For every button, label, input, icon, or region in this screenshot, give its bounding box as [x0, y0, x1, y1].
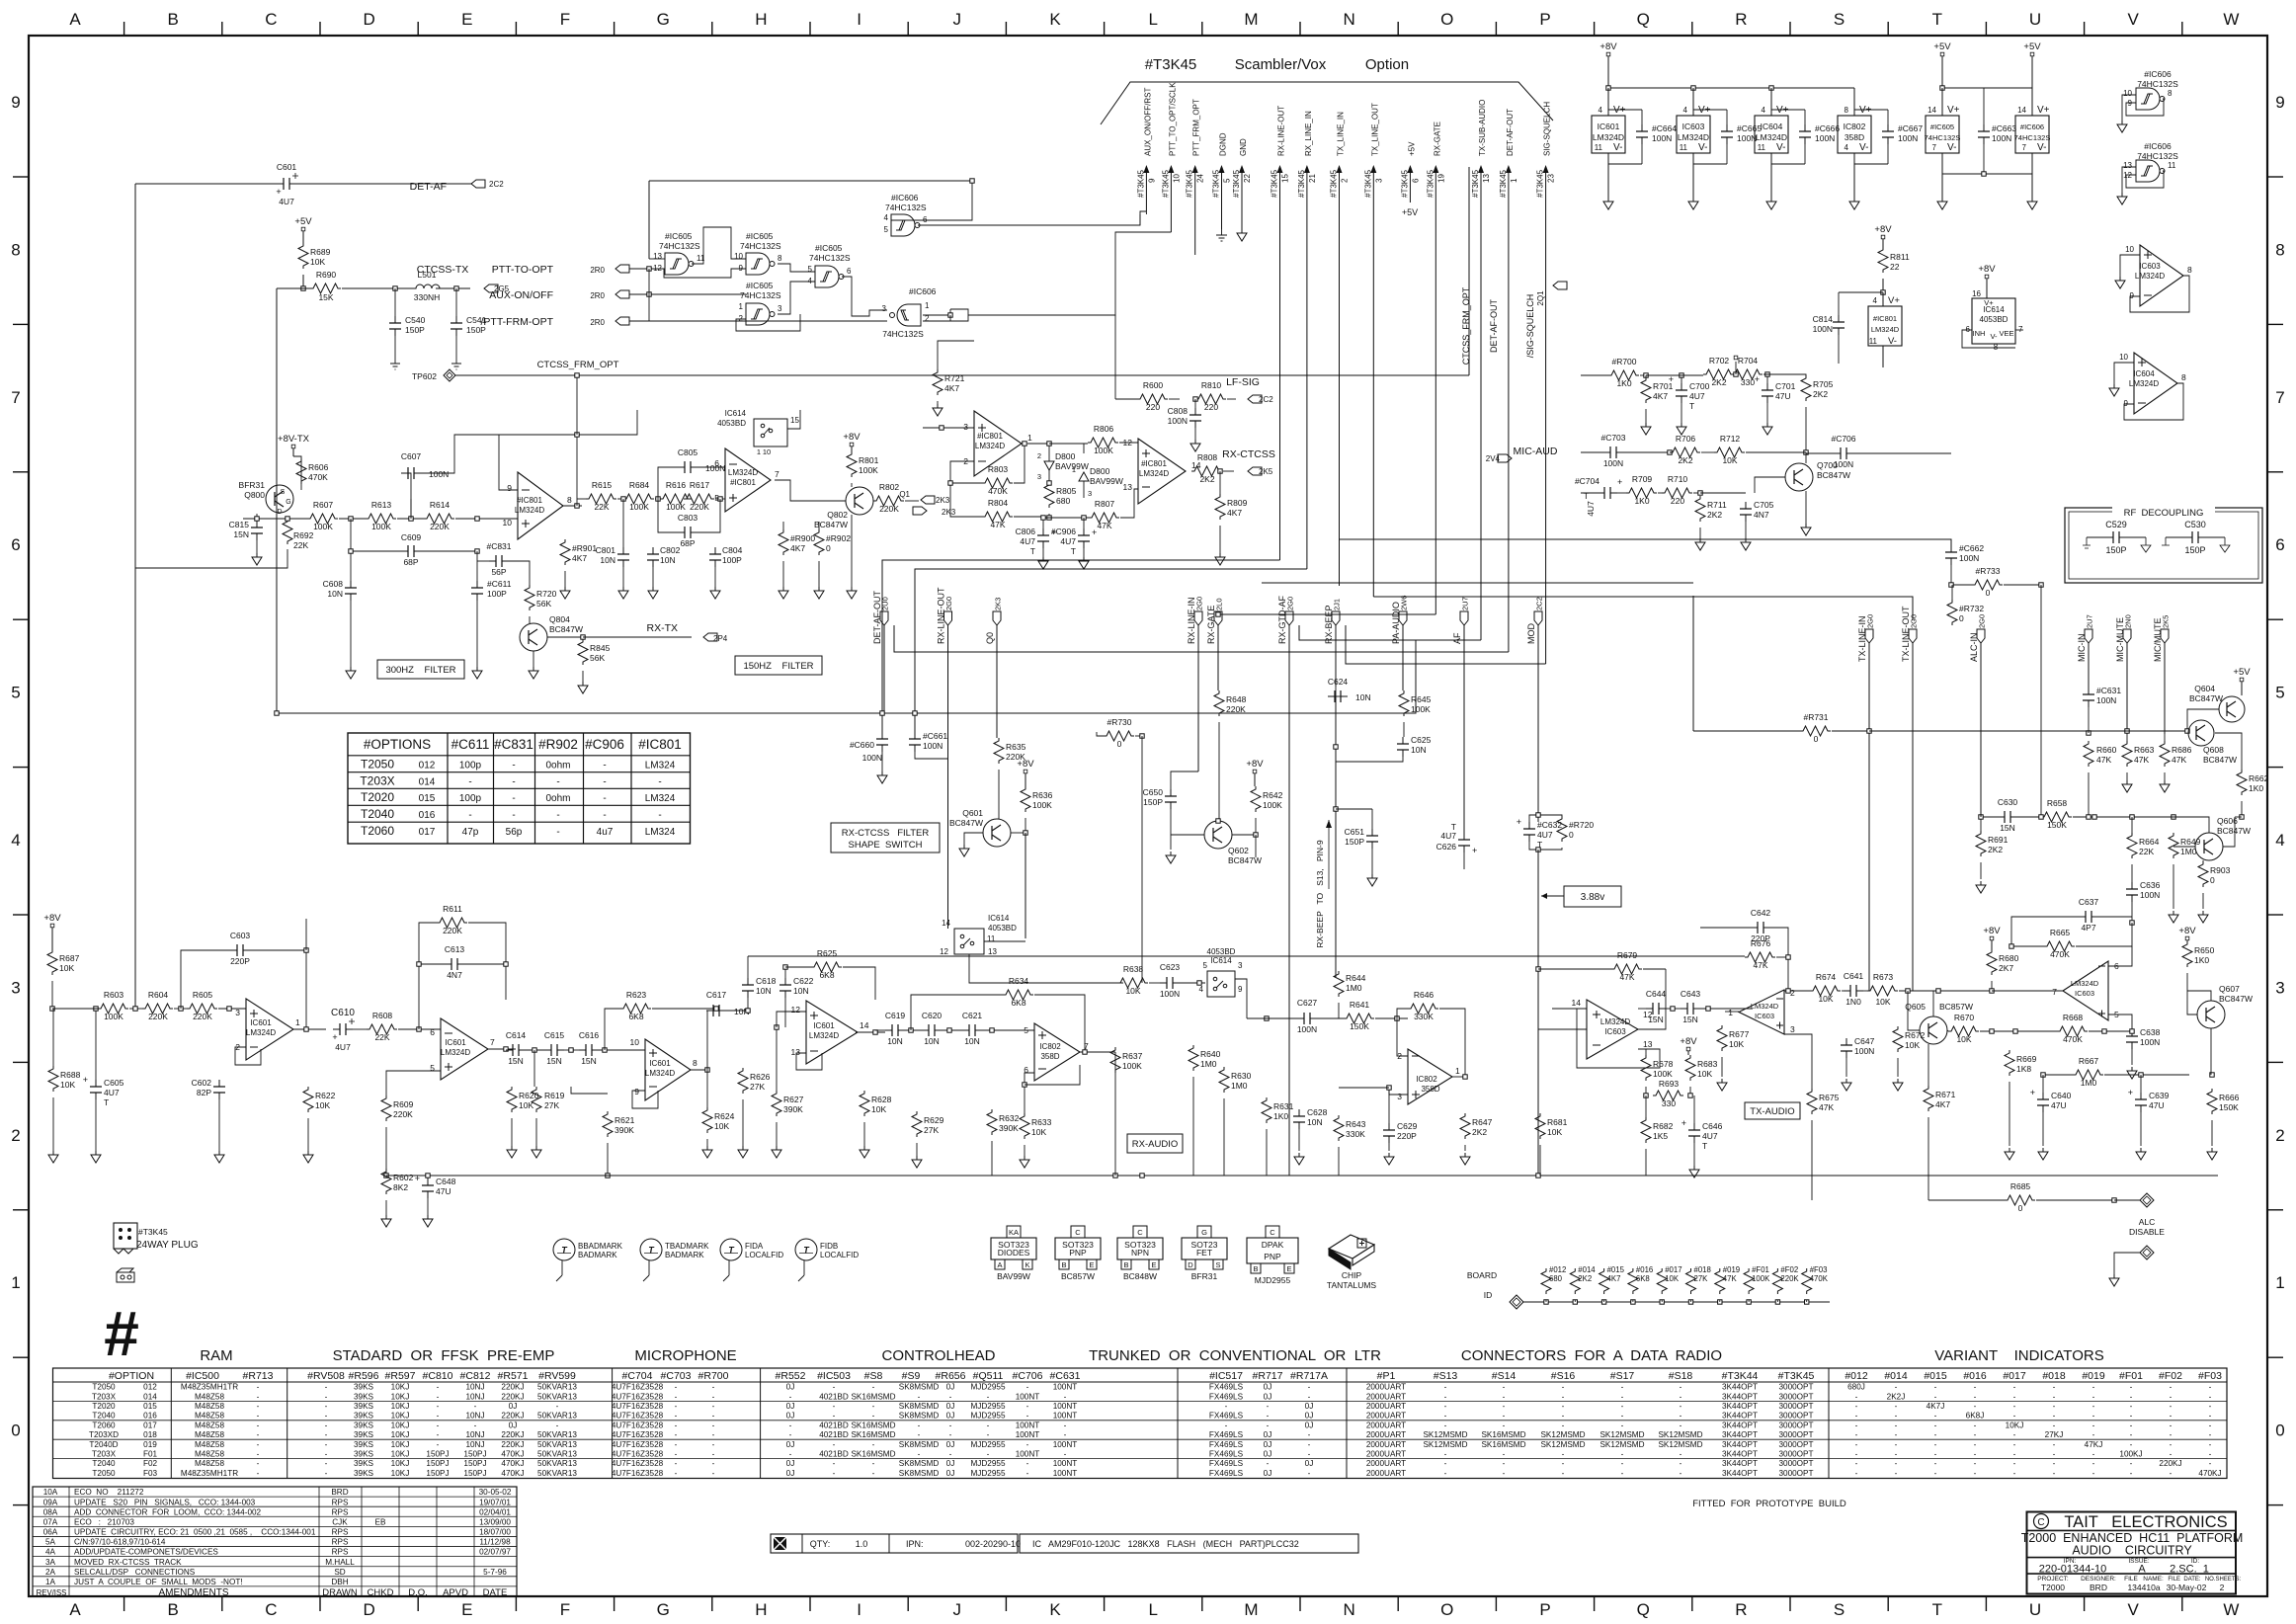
svg-text:C: C	[1270, 1228, 1275, 1237]
svg-text:4U7: 4U7	[1020, 536, 1035, 546]
svg-text:#OPTIONS: #OPTIONS	[364, 737, 431, 752]
svg-text:R689: R689	[310, 247, 331, 257]
svg-text:10K: 10K	[1905, 1040, 1920, 1050]
svg-text:C618: C618	[756, 976, 777, 986]
wire MOD lower drop	[1537, 969, 1539, 1176]
svg-text:-: -	[468, 810, 471, 821]
svg-text:3: 3	[11, 978, 20, 997]
T3K45 DGND ground	[1216, 229, 1227, 241]
svg-text:4053BD: 4053BD	[1980, 315, 2009, 324]
svg-text:4U7F16Z3528: 4U7F16Z3528	[612, 1469, 664, 1478]
resistor R669 1K8	[2005, 1031, 2037, 1160]
svg-text:7: 7	[2022, 143, 2027, 152]
svg-text:-: -	[1621, 1450, 1624, 1459]
svg-text:VEE: VEE	[1999, 329, 2013, 338]
analog switch IC614 4053BD power	[1962, 289, 2023, 352]
svg-text:R682: R682	[1653, 1121, 1674, 1131]
svg-text:-: -	[872, 1469, 875, 1478]
svg-text:R636: R636	[1032, 790, 1053, 800]
capacitor C625 10N	[1336, 735, 1432, 762]
svg-text:2U7: 2U7	[2086, 614, 2094, 628]
svg-text:LM324: LM324	[645, 827, 676, 838]
svg-text:A: A	[2138, 1564, 2146, 1576]
svg-text:09A: 09A	[43, 1498, 58, 1506]
T3K45 GND arrow	[1237, 229, 1247, 241]
svg-text:4U7F16Z3528: 4U7F16Z3528	[612, 1440, 664, 1449]
svg-text:220-01344-10: 220-01344-10	[2039, 1564, 2107, 1576]
svg-text:-: -	[1934, 1469, 1937, 1478]
resistor R644 1M0	[1334, 971, 1366, 1018]
svg-text:7: 7	[2052, 987, 2057, 997]
svg-text:R629: R629	[924, 1115, 944, 1125]
svg-text:-: -	[2013, 1450, 2016, 1459]
legend BBADMARK badmark symbol	[553, 1239, 623, 1281]
svg-text:#T3K45: #T3K45	[1136, 169, 1145, 198]
svg-text:#R733: #R733	[1975, 566, 2000, 576]
resistor R617 220K	[684, 480, 714, 512]
svg-text:M48Z58: M48Z58	[195, 1440, 224, 1449]
svg-text:#R700: #R700	[698, 1370, 729, 1382]
svg-text:LM324D: LM324D	[728, 468, 758, 477]
resistor R606 470K	[296, 458, 329, 484]
wire r615 row	[577, 497, 725, 501]
svg-text:REV/ISS: REV/ISS	[37, 1588, 67, 1597]
svg-text:100p: 100p	[459, 760, 482, 771]
svg-text:4: 4	[1683, 106, 1688, 115]
svg-text:4A: 4A	[45, 1548, 56, 1557]
svg-text:4K7: 4K7	[572, 553, 587, 563]
svg-text:50KVAR13: 50KVAR13	[537, 1469, 577, 1478]
svg-text:100N: 100N	[1168, 416, 1188, 426]
svg-text:T203X: T203X	[92, 1392, 117, 1401]
svg-text:8: 8	[567, 495, 572, 505]
svg-text:#C661: #C661	[923, 731, 947, 741]
svg-text:2000UART: 2000UART	[1366, 1469, 1406, 1478]
resistor R664 22K	[2127, 817, 2160, 882]
svg-text:MJD2955: MJD2955	[970, 1402, 1005, 1411]
svg-text:5: 5	[1223, 178, 1232, 183]
svg-text:4U7: 4U7	[1440, 831, 1456, 841]
svg-text:4053BD: 4053BD	[988, 924, 1017, 933]
svg-text:4K7: 4K7	[790, 543, 805, 553]
svg-text:9: 9	[634, 1087, 639, 1096]
svg-text:4K7: 4K7	[1607, 1274, 1621, 1283]
svg-text:-: -	[603, 793, 606, 804]
svg-text:3K44OPT: 3K44OPT	[1722, 1392, 1758, 1401]
svg-text:SK12MSMD: SK12MSMD	[1540, 1440, 1585, 1449]
svg-text:-: -	[2013, 1459, 2016, 1468]
wire d800 node	[1027, 442, 1088, 453]
capacitor C803 68P	[658, 499, 720, 548]
svg-text:-: -	[257, 1412, 260, 1421]
svg-text:4U7F16Z3528: 4U7F16Z3528	[612, 1383, 664, 1392]
op-amp IC601 second	[386, 1018, 516, 1096]
svg-text:+5V: +5V	[2023, 41, 2041, 52]
svg-text:MIC-AUD: MIC-AUD	[1514, 446, 1558, 457]
resistor R600 220	[1115, 380, 1180, 412]
svg-text:ECO : 210703: ECO : 210703	[74, 1517, 134, 1526]
svg-text:1K0: 1K0	[2194, 955, 2209, 965]
svg-text:IC604: IC604	[2133, 369, 2155, 378]
svg-text:FX469LS: FX469LS	[1209, 1440, 1244, 1449]
svg-text:R702: R702	[1709, 356, 1730, 365]
svg-text:100N: 100N	[1992, 133, 2011, 143]
svg-text:I: I	[857, 10, 861, 29]
svg-text:-: -	[257, 1421, 260, 1429]
T3K45 pin 3 TX_LINE_OUT	[1363, 103, 1383, 597]
svg-text:MOD: MOD	[1526, 623, 1536, 644]
svg-text:LM324D: LM324D	[1751, 1002, 1779, 1011]
svg-text:220K: 220K	[690, 502, 709, 512]
svg-text:8: 8	[2168, 89, 2173, 98]
power +5V R689	[294, 216, 312, 245]
svg-text:13: 13	[653, 252, 662, 261]
svg-text:8: 8	[693, 1058, 697, 1068]
svg-text:#IC606: #IC606	[2144, 69, 2172, 79]
wire ic802 out down	[1114, 1052, 1116, 1176]
net RX-TX connector 2P4	[583, 622, 728, 643]
resistor R704 330	[1732, 356, 1763, 387]
svg-text:D: D	[363, 10, 374, 29]
svg-text:R675: R675	[1819, 1093, 1840, 1102]
legend chip tantalum symbol	[1327, 1235, 1377, 1290]
svg-text:0J: 0J	[1305, 1421, 1314, 1429]
svg-text:-: -	[437, 1440, 440, 1449]
svg-text:-: -	[872, 1440, 875, 1449]
svg-text:100KJ: 100KJ	[2119, 1450, 2142, 1459]
svg-text:#015: #015	[1924, 1370, 1947, 1382]
svg-text:-: -	[1026, 1469, 1029, 1478]
svg-text:-: -	[2092, 1412, 2095, 1421]
svg-text:T: T	[1702, 1141, 1707, 1151]
op-amp IC601 third	[630, 1037, 710, 1108]
svg-text:-: -	[1562, 1392, 1565, 1401]
svg-text:1A: 1A	[45, 1578, 56, 1586]
svg-text:10: 10	[503, 518, 513, 528]
svg-text:06A: 06A	[43, 1528, 58, 1537]
svg-text:CONNECTORS FOR A DATA RADI: CONNECTORS FOR A DATA RADIO	[1461, 1347, 1722, 1364]
svg-text:ADD CONNECTOR FOR LOOM, CC: ADD CONNECTOR FOR LOOM, CCO: 1344-002	[74, 1507, 262, 1516]
resistor R658 150K	[2041, 798, 2170, 830]
svg-text:50KVAR13: 50KVAR13	[537, 1440, 577, 1449]
svg-text:100N: 100N	[1297, 1024, 1317, 1034]
svg-text:3.88v: 3.88v	[1581, 892, 1604, 903]
svg-text:CHIP: CHIP	[1342, 1270, 1362, 1280]
wire rx-line-out down	[947, 722, 949, 929]
capacitor C607 100N	[401, 451, 449, 519]
svg-text:R721: R721	[944, 373, 965, 383]
svg-text:#C666: #C666	[1815, 123, 1840, 133]
svg-text:#C812: #C812	[460, 1370, 491, 1382]
resistor R811 22	[1878, 247, 1910, 294]
svg-text:0J: 0J	[1264, 1440, 1272, 1449]
svg-text:1K0: 1K0	[1273, 1111, 1288, 1121]
150HZ FILTER box	[735, 656, 822, 675]
svg-text:#012: #012	[1845, 1370, 1868, 1382]
svg-text:-: -	[1680, 1402, 1682, 1411]
svg-text:R692: R692	[293, 530, 314, 540]
capacitor C616 15N	[579, 1030, 645, 1066]
svg-text:C805: C805	[678, 447, 698, 457]
svg-text:V-: V-	[1613, 142, 1622, 153]
svg-text:#IC517: #IC517	[1209, 1370, 1243, 1382]
resistor R845 56K	[547, 635, 611, 693]
svg-text:#S16: #S16	[1551, 1370, 1576, 1382]
svg-text:8K2: 8K2	[393, 1182, 408, 1192]
svg-text:-: -	[325, 1383, 328, 1392]
svg-text:C651: C651	[1345, 827, 1365, 837]
capacitor #C666	[1771, 110, 1840, 164]
second diamond connector	[2109, 1246, 2154, 1286]
svg-text:MJD2955: MJD2955	[970, 1440, 1005, 1449]
svg-text:10N: 10N	[660, 555, 676, 565]
svg-text:R803: R803	[988, 464, 1009, 474]
svg-text:R720: R720	[536, 589, 557, 599]
svg-text:39KS: 39KS	[354, 1421, 374, 1429]
connector 2R0 PTTFRM	[590, 317, 887, 327]
gate #IC605 A	[653, 231, 705, 275]
svg-text:-: -	[1680, 1450, 1682, 1459]
resistor R614 220K	[424, 500, 454, 531]
svg-text:R623: R623	[626, 990, 647, 1000]
svg-text:4U7F16Z3528: 4U7F16Z3528	[612, 1412, 664, 1421]
svg-text:R609: R609	[393, 1099, 414, 1109]
resistor R675 47K	[1784, 1034, 1840, 1200]
svg-text:-: -	[2013, 1412, 2016, 1421]
svg-text:UPDATE S20 PIN SIGNALS,: UPDATE S20 PIN SIGNALS, CCO: 1344-003	[74, 1498, 256, 1506]
svg-text:74HC132S: 74HC132S	[740, 290, 781, 300]
svg-text:V+: V+	[1984, 298, 1994, 307]
svg-text:C621: C621	[962, 1011, 983, 1020]
svg-text:-: -	[2053, 1459, 2056, 1468]
svg-text:AUDIO CIRCUITRY: AUDIO CIRCUITRY	[2072, 1544, 2192, 1558]
svg-text:R631: R631	[1273, 1101, 1294, 1111]
mid connector 2W6 PA-AUDIO	[1391, 596, 1409, 690]
svg-text:-: -	[658, 810, 661, 821]
svg-text:-: -	[918, 1450, 921, 1459]
op-amp IC601 fourth	[777, 1001, 885, 1070]
mid connector 2G0 RX-LINE-IN	[1187, 597, 1204, 771]
svg-text:7: 7	[11, 388, 20, 407]
svg-text:-: -	[512, 760, 515, 771]
svg-text:C610: C610	[331, 1008, 355, 1018]
svg-text:15N: 15N	[508, 1056, 524, 1066]
svg-text:-: -	[2170, 1440, 2173, 1449]
svg-text:-: -	[2092, 1392, 2095, 1401]
svg-text:#S8: #S8	[864, 1370, 883, 1382]
svg-text:0J: 0J	[946, 1440, 955, 1449]
svg-text:ALC: ALC	[2139, 1217, 2156, 1227]
svg-text:FX469LS: FX469LS	[1209, 1412, 1244, 1421]
svg-text:74HC132S: 74HC132S	[809, 253, 851, 263]
transistor Q601 BC847W	[949, 808, 1027, 856]
resistor R678 100K	[1641, 1049, 1674, 1097]
svg-text:2K7: 2K7	[1999, 963, 2013, 973]
svg-text:15K: 15K	[318, 292, 333, 302]
T3K45 option boundary line	[1101, 82, 1553, 124]
svg-text:39KS: 39KS	[354, 1459, 374, 1468]
legend TBADMARK badmark symbol	[640, 1239, 709, 1281]
svg-text:-: -	[1680, 1421, 1682, 1429]
svg-text:3: 3	[1374, 178, 1383, 183]
capacitor C603 220P	[181, 931, 308, 1029]
svg-text:10K: 10K	[60, 1080, 75, 1090]
op-amp IC802 power block	[1838, 88, 1872, 209]
capacitor C619 10N	[875, 1011, 922, 1046]
svg-text:A: A	[69, 10, 81, 29]
svg-text:RPS: RPS	[332, 1548, 349, 1557]
svg-text:C608: C608	[323, 579, 344, 589]
svg-text:4021BD: 4021BD	[819, 1421, 849, 1429]
svg-text:#017: #017	[2003, 1370, 2026, 1382]
svg-text:-: -	[1444, 1459, 1447, 1468]
svg-text:6: 6	[11, 535, 20, 554]
svg-text:#IC801: #IC801	[517, 496, 542, 505]
svg-text:R641: R641	[1350, 1000, 1370, 1010]
right connector 2U7 MIC-IN	[2077, 614, 2094, 662]
svg-text:6: 6	[1411, 178, 1420, 183]
svg-text:220KJ: 220KJ	[501, 1440, 524, 1449]
svg-text:27K: 27K	[750, 1082, 765, 1092]
svg-text:M48Z58: M48Z58	[195, 1450, 224, 1459]
capacitor #C632 4U7 tantalum	[1517, 815, 1563, 850]
svg-text:DET-AF-OUT: DET-AF-OUT	[872, 591, 882, 644]
wire lf-sig feed	[1114, 315, 1116, 399]
svg-text:#R713: #R713	[243, 1370, 274, 1382]
svg-text:3000OPT: 3000OPT	[1778, 1440, 1813, 1449]
svg-text:V-: V-	[2037, 142, 2046, 153]
svg-text:4: 4	[884, 213, 889, 222]
svg-text:47K: 47K	[1097, 521, 1111, 530]
svg-text:39KS: 39KS	[354, 1383, 374, 1392]
capacitor C610 4U7	[331, 1008, 355, 1052]
svg-text:T2040: T2040	[92, 1459, 116, 1468]
svg-text:220: 220	[1671, 496, 1684, 506]
svg-text:#IC605: #IC605	[665, 231, 693, 241]
capacitor C601 4U7	[276, 162, 298, 206]
svg-text:R809: R809	[1227, 498, 1248, 508]
legend SOT323 pnp package	[1055, 1226, 1101, 1281]
legend DPAK pnp package	[1247, 1226, 1298, 1285]
op-amp #IC841 LM324D fourth	[1123, 438, 1201, 504]
board id resistor #014 2K2	[1570, 1265, 1596, 1304]
svg-text:220K: 220K	[1226, 704, 1246, 714]
capacitor C623 100N	[1160, 962, 1205, 999]
svg-text:2000UART: 2000UART	[1366, 1412, 1406, 1421]
svg-text:IC601: IC601	[1598, 122, 1620, 131]
svg-text:-: -	[603, 810, 606, 821]
svg-text:-: -	[1064, 1392, 1067, 1401]
svg-text:A: A	[997, 1260, 1002, 1269]
board id resistor #F03 470K	[1802, 1265, 1829, 1304]
svg-text:IC614: IC614	[988, 914, 1010, 923]
svg-text:3K44OPT: 3K44OPT	[1722, 1440, 1758, 1449]
svg-text:4021BD: 4021BD	[819, 1430, 849, 1439]
net LF-SIG connector 2C2	[1226, 376, 1273, 404]
svg-text:#T3K44: #T3K44	[1722, 1370, 1759, 1382]
svg-text:TP602: TP602	[412, 371, 437, 381]
svg-text:0: 0	[2275, 1421, 2284, 1440]
svg-text:C603: C603	[230, 931, 251, 940]
svg-text:MJD2955: MJD2955	[970, 1412, 1005, 1421]
svg-text:3000OPT: 3000OPT	[1778, 1383, 1813, 1392]
svg-text:FITTED FOR PROTOTYPE BUILD: FITTED FOR PROTOTYPE BUILD	[1692, 1499, 1846, 1509]
svg-text:+5V: +5V	[1407, 141, 1416, 156]
svg-text:Q804: Q804	[549, 614, 570, 624]
svg-text:39KS: 39KS	[354, 1469, 374, 1478]
svg-text:R807: R807	[1095, 499, 1115, 509]
resistor R671 4K7	[1924, 1044, 1956, 1200]
mid connector 2K3 Q0	[985, 598, 1003, 738]
svg-text:4U7: 4U7	[279, 197, 294, 206]
svg-text:100K: 100K	[104, 1012, 123, 1021]
svg-text:-: -	[2170, 1402, 2173, 1411]
svg-text:#R571: #R571	[498, 1370, 529, 1382]
svg-text:-: -	[1308, 1430, 1311, 1439]
svg-text:R806: R806	[1094, 424, 1114, 434]
svg-text:BC848W: BC848W	[1123, 1271, 1157, 1281]
svg-text:+8V: +8V	[1983, 926, 2001, 936]
svg-text:C804: C804	[722, 545, 743, 555]
svg-text:22K: 22K	[293, 540, 308, 550]
resistor R609 220K	[381, 1096, 414, 1177]
svg-text:T: T	[1584, 491, 1589, 501]
svg-text:#R902: #R902	[826, 533, 851, 543]
transistor Q602 BC847W	[1204, 819, 1262, 865]
svg-text:T203X: T203X	[92, 1450, 117, 1459]
capacitor #C611 100P	[471, 551, 512, 679]
svg-text:TANTALUMS: TANTALUMS	[1327, 1280, 1377, 1290]
svg-text:2K2: 2K2	[1711, 377, 1726, 387]
svg-text:+: +	[1617, 477, 1622, 487]
net ALC DISABLE diamond	[2114, 1193, 2165, 1237]
svg-text:4: 4	[11, 831, 20, 850]
svg-text:11: 11	[1758, 143, 1766, 152]
resistor R631 1K0	[1262, 1016, 1294, 1176]
svg-text:47K: 47K	[1819, 1102, 1834, 1112]
svg-text:100NT: 100NT	[1016, 1450, 1040, 1459]
capacitor C814 100N	[1813, 292, 1883, 364]
resistor R604 220K	[129, 990, 173, 1021]
svg-text:R630: R630	[1231, 1071, 1252, 1081]
wire mid horizontal 590	[1262, 582, 1693, 584]
svg-text:LM324D: LM324D	[1593, 132, 1624, 142]
svg-text:8: 8	[778, 254, 782, 263]
svg-text:+8V-TX: +8V-TX	[278, 434, 310, 445]
svg-text:DET-AF-OUT: DET-AF-OUT	[1489, 299, 1499, 353]
svg-text:LOCALFID: LOCALFID	[745, 1251, 783, 1259]
T3K45 24way plug symbol	[114, 1223, 199, 1254]
svg-text:12: 12	[653, 264, 662, 273]
svg-text:T: T	[1689, 401, 1694, 411]
svg-text:C701: C701	[1775, 381, 1796, 391]
svg-text:-: -	[987, 1450, 990, 1459]
svg-text:SD: SD	[334, 1568, 345, 1577]
svg-text:C609: C609	[401, 532, 422, 542]
svg-text:MJD2955: MJD2955	[970, 1469, 1005, 1478]
capacitor #C631 100N	[2083, 686, 2121, 733]
svg-text:H: H	[755, 1600, 767, 1619]
mid connector 2U7 AF	[1452, 597, 1470, 833]
svg-text:74HC132S: 74HC132S	[885, 203, 927, 212]
svg-text:-: -	[1974, 1402, 1977, 1411]
grid row numbers left	[11, 93, 20, 1440]
svg-text:C638: C638	[2140, 1027, 2161, 1037]
svg-text:-: -	[1621, 1421, 1624, 1429]
svg-text:RX-AUDIO: RX-AUDIO	[1132, 1139, 1178, 1150]
svg-text:J: J	[953, 1600, 962, 1619]
svg-text:2P4: 2P4	[713, 634, 728, 643]
